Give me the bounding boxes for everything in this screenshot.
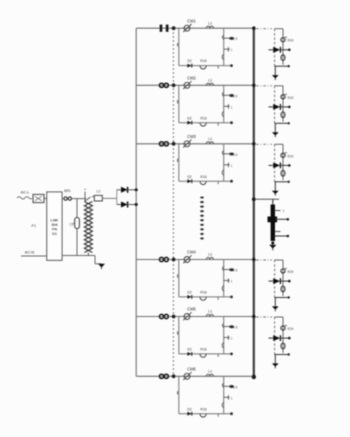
svg-text:R16: R16: [200, 59, 206, 63]
svg-text:PN: PN: [52, 228, 58, 232]
svg-text:+: +: [84, 188, 86, 192]
svg-text:4.9: 4.9: [233, 385, 238, 389]
svg-text:R24: R24: [287, 154, 293, 158]
svg-text:CM3: CM3: [187, 134, 196, 139]
svg-text:1: 1: [231, 337, 233, 341]
svg-text:R24: R24: [287, 327, 293, 331]
svg-text:4.9: 4.9: [233, 153, 238, 157]
svg-text:G1: G1: [52, 232, 57, 236]
svg-text:CM5: CM5: [187, 307, 196, 312]
svg-text:L1: L1: [208, 21, 212, 25]
svg-text:L1: L1: [208, 253, 212, 257]
svg-text:D2: D2: [187, 175, 191, 179]
svg-text:R24: R24: [287, 39, 293, 43]
svg-text:1: 1: [231, 280, 233, 284]
svg-text:304: 304: [51, 223, 58, 227]
svg-text:4.9: 4.9: [233, 94, 238, 98]
svg-text:L1: L1: [208, 370, 212, 374]
svg-text:D2: D2: [187, 348, 191, 352]
svg-text:CM2: CM2: [187, 76, 196, 81]
svg-text:4.9: 4.9: [233, 269, 238, 273]
svg-text:L1: L1: [208, 137, 212, 141]
svg-text:4.9: 4.9: [233, 326, 238, 330]
svg-text:R16: R16: [200, 175, 206, 179]
svg-text:4.9: 4.9: [233, 37, 238, 41]
svg-text:R16: R16: [200, 291, 206, 295]
svg-text:1: 1: [231, 164, 233, 168]
svg-text:D2: D2: [187, 291, 191, 295]
svg-text:1: 1: [231, 105, 233, 109]
svg-text:D2: D2: [187, 116, 191, 120]
svg-text:T: T: [283, 210, 285, 214]
svg-text:AC-N: AC-N: [25, 249, 35, 254]
svg-text:1: 1: [231, 48, 233, 52]
svg-text:D2: D2: [187, 59, 191, 63]
svg-text:AC-L: AC-L: [21, 191, 30, 195]
svg-text:1: 1: [231, 396, 233, 400]
svg-text:R24: R24: [287, 96, 293, 100]
svg-text:L1: L1: [208, 79, 212, 83]
svg-text:D2: D2: [187, 407, 191, 411]
svg-text:L2: L2: [97, 190, 101, 194]
svg-text:R16: R16: [200, 116, 206, 120]
svg-text:R16: R16: [200, 407, 206, 411]
svg-text:CM1: CM1: [187, 18, 196, 23]
svg-text:CM4: CM4: [187, 250, 196, 255]
svg-text:R16: R16: [200, 348, 206, 352]
svg-text:P1: P1: [32, 224, 37, 228]
svg-text:CM6: CM6: [187, 367, 196, 372]
svg-text:R24: R24: [287, 270, 293, 274]
svg-text:BR1: BR1: [64, 189, 71, 193]
svg-text:LNK: LNK: [50, 219, 58, 223]
svg-text:L1: L1: [208, 310, 212, 314]
